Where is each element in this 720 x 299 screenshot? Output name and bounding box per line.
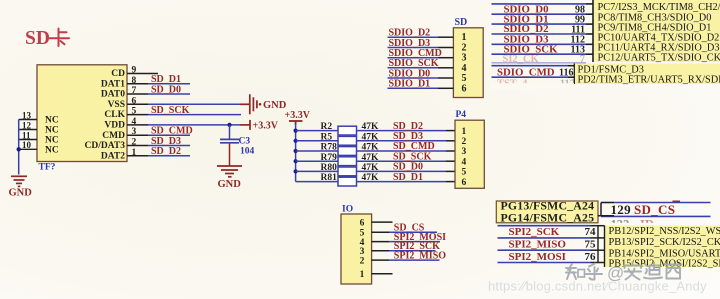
wire net SD_D0 from TF1 pin 7: [148, 93, 190, 95]
cropped faint row 132: [611, 218, 654, 232]
svg-text:PB12/SPI2_NSS/I2S2_WS: PB12/SPI2_NSS/I2S2_WS: [609, 226, 720, 237]
svg-text:SD_D1: SD_D1: [393, 172, 423, 183]
wire rail to R81: [296, 181, 338, 183]
wire SPI2 row y237.9: [498, 237, 591, 239]
svg-text:R5: R5: [321, 132, 333, 142]
svg-text:DAT1: DAT1: [101, 79, 125, 89]
svg-text:PC12/UART5_TX/SDIO_CK: PC12/UART5_TX/SDIO_CK: [598, 53, 720, 64]
svg-text:SPI2_MISO: SPI2_MISO: [509, 239, 567, 251]
pin line PD2: [568, 76, 574, 78]
svg-text:SDIO_D1: SDIO_D1: [389, 79, 431, 90]
ground symbol (earth) bottom-left: [11, 176, 27, 186]
pin line SD pin 1: [438, 36, 453, 38]
MCU U1 fragment body (PD port): [574, 64, 720, 85]
pin line 5 (TF1): [127, 114, 148, 116]
wire R79 to P4 / net SD_SCK: [357, 160, 447, 162]
wire net SDIO_CMD: [492, 76, 569, 78]
svg-text:SD_CS: SD_CS: [634, 202, 675, 217]
power symbol +3.3V bar (rail): [289, 121, 303, 125]
wire MCU PC row y54.2: [492, 53, 587, 55]
wire MCU PC row y14.2: [492, 13, 587, 15]
pin line 3 (TF1): [127, 134, 148, 136]
pin line SPI2 row y225.7: [591, 225, 605, 227]
wire SPI2 row y225.7: [498, 225, 591, 227]
svg-text:75: 75: [585, 239, 597, 251]
wire net SPI2_SCK (IO): [389, 250, 436, 252]
MCU U1 fragment body (PB port): [605, 226, 720, 267]
wire R81 to P4 / net SD_D1: [357, 181, 447, 183]
svg-text:P4: P4: [456, 110, 467, 120]
pin line MCU PC row y3.9: [586, 3, 593, 5]
svg-text:R80: R80: [321, 163, 338, 173]
wire net SDIO_D3 to SD pin 2: [388, 47, 439, 49]
svg-text:GND: GND: [9, 188, 33, 199]
pin line 4 (TF1): [127, 124, 148, 126]
junction node rail y130: [294, 129, 298, 133]
svg-text:SPI2_SCK: SPI2_SCK: [509, 226, 560, 238]
svg-text:PB13/SPI2_SCK/I2S2_CK: PB13/SPI2_SCK/I2S2_CK: [609, 237, 720, 248]
junction node rail y140: [294, 139, 298, 143]
svg-text:NC: NC: [45, 126, 59, 136]
wire net SPI2_MISO (IO): [389, 259, 440, 261]
svg-text:116: 116: [559, 68, 573, 79]
svg-text:GND: GND: [218, 179, 242, 190]
resistor R79 body: [338, 157, 357, 166]
connector IO body: [341, 214, 372, 284]
wire NC bus vertical: [18, 120, 20, 175]
svg-text:2: 2: [462, 137, 467, 147]
pin line P4 row R2: [446, 130, 455, 132]
cropped faint wire: [492, 62, 587, 64]
wire net SDIO_D2 to SD pin 1: [388, 36, 439, 38]
pin line IO (SPI2_MOSI): [372, 241, 389, 243]
svg-text:NC: NC: [45, 136, 59, 146]
crop mask: [490, 83, 574, 89]
svg-text:CLK: CLK: [104, 110, 125, 120]
junction node rail y171: [294, 169, 298, 173]
svg-text:R2: R2: [321, 122, 333, 132]
svg-text:IO: IO: [342, 204, 353, 214]
pin line MCU PC row y54.2: [586, 53, 593, 55]
connector SD body: [453, 28, 483, 98]
svg-text:4: 4: [462, 157, 467, 167]
svg-text:CD/DAT3: CD/DAT3: [85, 141, 126, 151]
svg-text:6: 6: [360, 218, 365, 228]
MCU U1 PB fragment left border: [604, 226, 606, 267]
svg-text:129: 129: [611, 202, 632, 217]
pin line 9 (TF1): [127, 73, 158, 75]
wire rail to R80: [296, 170, 338, 172]
svg-text:CMD: CMD: [102, 131, 125, 141]
wire VDD (pin 4) to +3.3V: [148, 124, 240, 126]
svg-text:1: 1: [462, 127, 467, 137]
svg-text:76: 76: [585, 251, 597, 263]
pin line PD1: [568, 65, 574, 67]
pin line top-left dark seg: [601, 202, 614, 204]
svg-text:104: 104: [240, 147, 255, 157]
svg-text:74: 74: [585, 226, 597, 238]
crop mask 2: [600, 223, 718, 226]
wire net SDIO_D1 to SD pin 6: [388, 87, 439, 89]
pin line left edge SD_CS box: [600, 203, 602, 217]
svg-text:DAT2: DAT2: [101, 151, 125, 161]
pin line SPI2 row y262.5: [591, 262, 605, 264]
svg-text:https:∕∕blog.csdn.net∕Chuangke: https:∕∕blog.csdn.net∕Chuangke_Andy: [488, 279, 707, 294]
svg-text:R79: R79: [321, 153, 338, 163]
wire MCU PC row y34.0: [492, 33, 587, 35]
pin line 1 (TF1): [127, 155, 148, 157]
svg-text:VSS: VSS: [108, 100, 125, 110]
svg-text:CD: CD: [111, 69, 125, 79]
pin edge vertical (PB): [597, 226, 599, 263]
connector TF1 (TF card socket) body: [37, 65, 127, 162]
MCU U1 fragment body (PG port): [496, 201, 598, 223]
svg-text:DAT0: DAT0: [101, 90, 125, 100]
cropped faint row 117: [497, 79, 575, 90]
pin line PG14 to SD_CS box: [598, 215, 615, 217]
svg-text:SD_D0: SD_D0: [151, 84, 181, 95]
wire R80 to P4 / net SD_D0: [357, 170, 447, 172]
pin line 8 (TF1): [127, 83, 148, 85]
svg-text:SDIO_CMD: SDIO_CMD: [497, 67, 555, 79]
svg-text:SPI2_MOSI: SPI2_MOSI: [509, 251, 566, 263]
capacitor C3 plates: [220, 139, 239, 142]
cropped faint row SDIO_CK: [503, 54, 586, 65]
svg-text:VDD: VDD: [104, 121, 125, 131]
pin line P4 row R5: [446, 140, 455, 142]
svg-text:1: 1: [360, 270, 365, 280]
wire net SDIO_CMD to SD pin 3: [388, 57, 439, 59]
svg-text:SPI2_MISO: SPI2_MISO: [394, 251, 446, 262]
wire rail to R78: [296, 150, 338, 152]
pin line MCU PC row y24.1: [586, 23, 593, 25]
wire VSS (pin 6) to GND: [148, 103, 240, 105]
pin line SPI2 row y250.2: [591, 249, 605, 251]
svg-text:SI2_CK: SI2_CK: [503, 54, 540, 65]
svg-text:PG14/FSMC_A25: PG14/FSMC_A25: [501, 210, 595, 224]
pin line SD pin 6: [438, 87, 453, 89]
capacitor C3 bottom lead: [229, 144, 231, 166]
svg-text:+3.3V: +3.3V: [253, 120, 279, 131]
pin line 7 (TF1): [127, 93, 148, 95]
svg-text:C3: C3: [239, 137, 251, 147]
ground symbol (earth) under C3: [217, 166, 242, 177]
wire MCU PC row y24.1: [492, 23, 587, 25]
capacitor C3 top lead: [229, 125, 231, 139]
cropped red mark: [673, 200, 681, 202]
svg-text:NC: NC: [45, 116, 59, 126]
wire net SD_D2 from TF1 pin 1: [148, 155, 190, 157]
pin line 13 (TF1 left NC): [19, 119, 37, 121]
svg-text:GND: GND: [263, 100, 287, 111]
pin line IO (SPI2_SCK): [372, 250, 389, 252]
MCU U1 fragment body (PC port): [593, 0, 720, 62]
svg-text:PD2/TIM3_ETR/UART5_RX/SDIO_CM: PD2/TIM3_ETR/UART5_RX/SDIO_CM: [578, 75, 720, 86]
pin line MCU PC row y14.2: [586, 13, 593, 15]
svg-text:SD_SCK: SD_SCK: [151, 105, 190, 116]
wire R2 to P4 / net SD_D2: [357, 130, 447, 132]
junction node NC 10: [17, 147, 21, 151]
pin line IO (SPI2_MISO): [372, 259, 389, 261]
wire SD_CS box bottom: [601, 215, 711, 217]
wire net SD_CS (IO): [389, 231, 437, 233]
pin line 2 (TF1): [127, 145, 148, 147]
pin line IO 1: [372, 273, 393, 275]
resistor R5 body: [338, 136, 357, 145]
wire R78 to P4 / net SD_CMD: [357, 150, 447, 152]
wire net SD_CMD from TF1 pin 3: [148, 134, 190, 136]
resistor R78 body: [338, 147, 357, 156]
power ground symbol (bar style) on VSS: [240, 94, 257, 114]
svg-text:R81: R81: [321, 173, 338, 183]
connector P4 body: [455, 120, 484, 188]
pin line MCU PC row y34.0: [586, 33, 593, 35]
wire MCU PC row y44.3: [492, 43, 587, 45]
svg-text:R78: R78: [321, 143, 338, 153]
wire rail to R5: [296, 140, 338, 142]
title glyph 卡 (hand-drawn): [50, 29, 70, 47]
svg-text:SD: SD: [25, 28, 50, 49]
pin line 10 (TF1 left NC): [19, 148, 37, 150]
pin line P4 row R79: [446, 160, 455, 162]
wire R5 to P4 / net SD_D3: [357, 140, 447, 142]
pin line SD pin 3: [438, 57, 453, 59]
wire SPI2 row y262.5: [498, 262, 591, 264]
pin line 11 (TF1 left NC): [19, 139, 37, 141]
pin line SPI2 row y237.9: [591, 237, 605, 239]
pin line 12 (TF1 left NC): [19, 129, 37, 131]
svg-text:6: 6: [462, 83, 467, 94]
svg-text:2: 2: [360, 256, 365, 266]
MCU U1 fragment left border: [592, 0, 594, 62]
pin line SD pin 4: [438, 67, 453, 69]
wire net SD_SCK from TF1 pin 5: [148, 114, 241, 116]
pin line SD pin 2: [438, 47, 453, 49]
resistor R2 body: [338, 126, 357, 135]
wire net SD_D3 from TF1 pin 2: [148, 145, 190, 147]
pin line IO (SD_CS): [372, 231, 389, 233]
wire PD1 row: [492, 65, 569, 67]
junction node rail y161: [294, 159, 298, 163]
junction node rail y151: [294, 149, 298, 153]
pin line P4 row R80: [446, 170, 455, 172]
wire MCU PC row y3.9: [492, 3, 587, 5]
svg-text:+3.3V: +3.3V: [285, 110, 311, 121]
wire +3.3V rail vertical: [295, 124, 297, 182]
pin line 6 (TF1): [127, 103, 148, 105]
svg-text:6: 6: [462, 178, 467, 188]
pin line P4 row R81: [446, 181, 455, 183]
wire SPI2 row y250.2: [498, 249, 591, 251]
MCU U1 PD fragment left border: [573, 64, 575, 85]
wire net SD_D1 from TF1 pin 8: [148, 83, 190, 85]
svg-text:5: 5: [462, 168, 467, 178]
svg-text:3: 3: [462, 147, 467, 157]
power symbol +3.3V (bar) on VDD: [240, 120, 250, 130]
pin line MCU PC row y44.3: [586, 43, 593, 45]
wire net SDIO_D0 to SD pin 5: [388, 77, 439, 79]
pin line SD pin 5: [438, 77, 453, 79]
pin line P4 row R78: [446, 150, 455, 152]
resistor R81 body: [338, 177, 357, 186]
wire rail to R2: [296, 130, 338, 132]
svg-text:NC: NC: [45, 146, 59, 156]
svg-text:SD: SD: [455, 17, 468, 28]
wire net SPI2_MOSI (IO): [389, 241, 440, 243]
pin line IO 6: [372, 221, 393, 223]
watermark zhihu text (hand-drawn CJK): [566, 264, 602, 280]
svg-text:SD_D2: SD_D2: [151, 146, 181, 157]
resistor R80 body: [338, 167, 357, 176]
wire rail to R79: [296, 160, 338, 162]
svg-text:TF?: TF?: [39, 163, 56, 173]
junction node at C3 top: [227, 123, 231, 127]
wire net SDIO_SCK to SD pin 4: [388, 67, 439, 69]
wire SD_CS box top: [601, 202, 711, 204]
